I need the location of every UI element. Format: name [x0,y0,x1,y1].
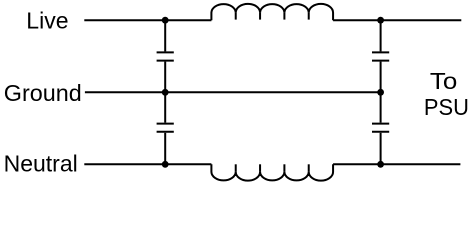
capacitor C4 Ground-Neutral right column [372,92,389,164]
wire Ground segment [85,91,381,93]
wire Neutral right segment [333,163,460,165]
junction dot Neutral right [377,161,384,168]
net label Neutral [4,150,78,176]
wire Live left segment [84,19,211,21]
svg-text:Live: Live [26,8,68,34]
junction dot Ground right [377,89,384,96]
net label Live [26,8,68,34]
junction dot Neutral left [162,161,169,168]
wire Neutral left segment [84,163,211,165]
svg-text:To: To [430,68,457,94]
capacitor C2 Ground-Neutral left column [157,92,174,164]
net label To PSU [424,68,469,120]
svg-text:Neutral: Neutral [4,150,78,176]
junction dot Ground left [162,89,169,96]
inductor L2 on Neutral line [211,164,333,180]
wire Live right segment [333,19,461,21]
capacitor C3 Live-Ground right column [372,20,389,92]
junction dot Live right [377,17,384,24]
inductor L1 on Live line [211,4,333,20]
capacitor C1 Live-Ground left column [157,20,174,92]
svg-text:Ground: Ground [4,80,82,106]
svg-text:PSU: PSU [424,94,469,120]
net label Ground [4,80,82,106]
junction dot Live left [162,17,169,24]
